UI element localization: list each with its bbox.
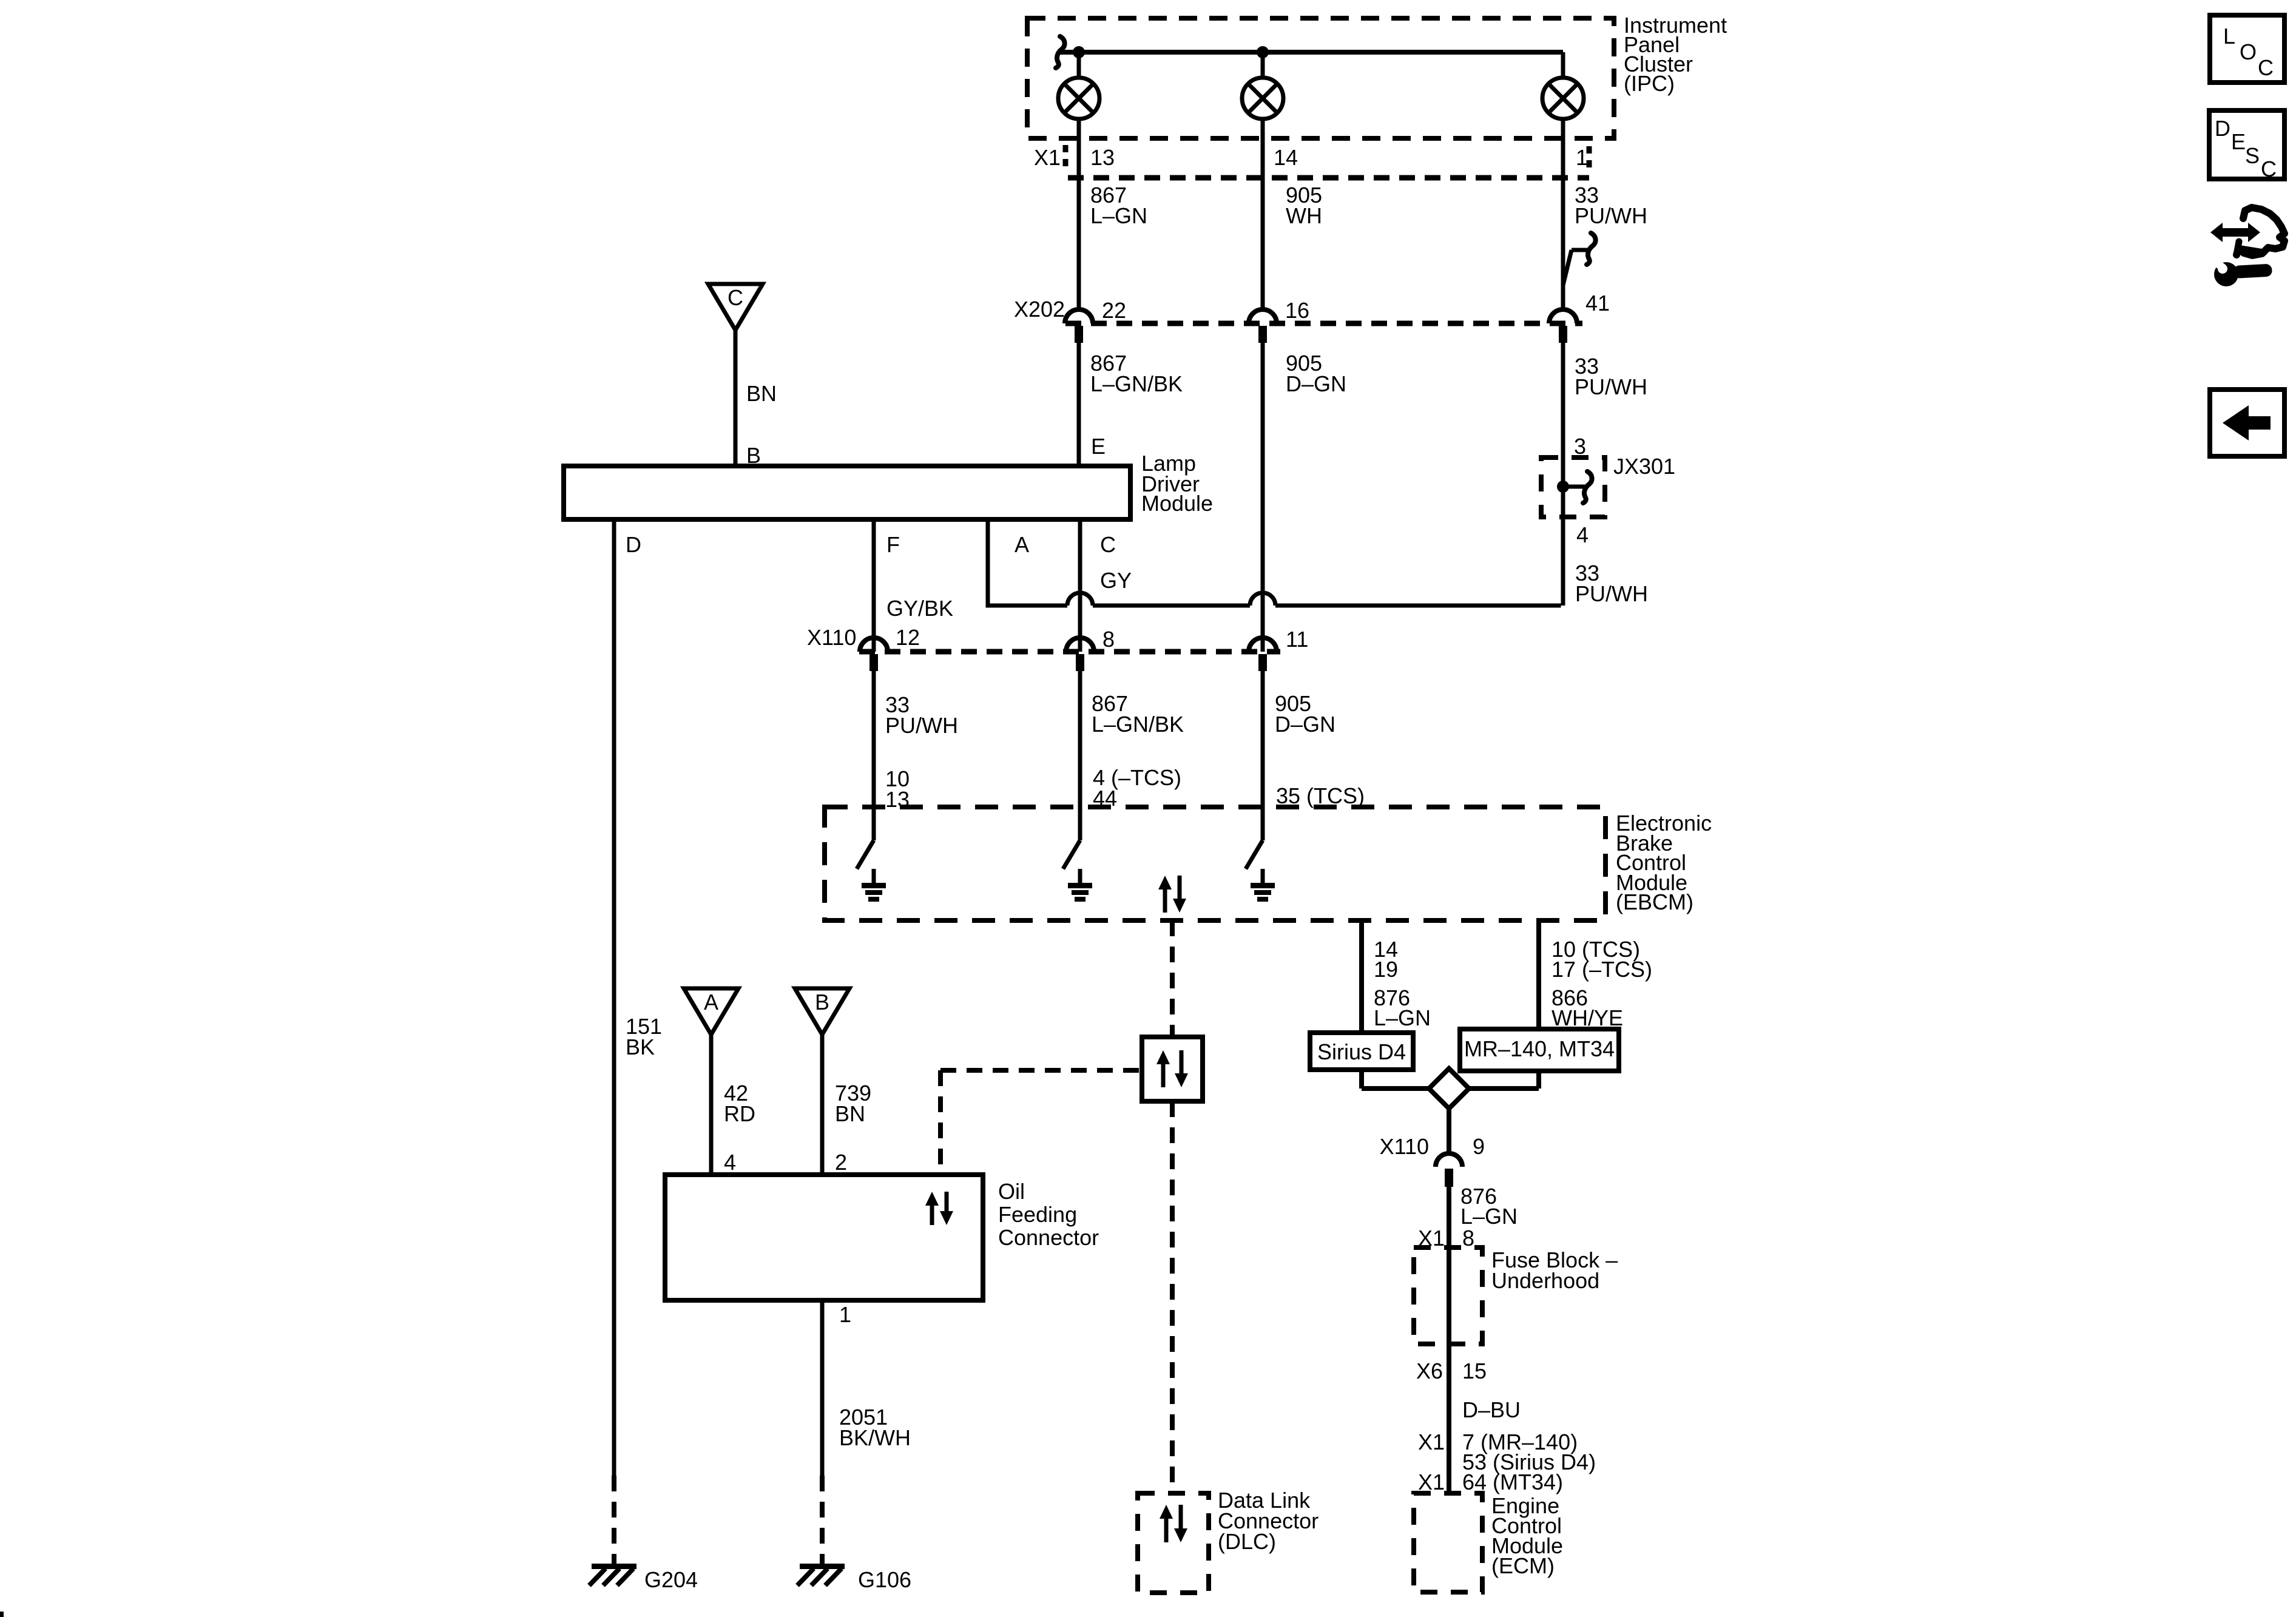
svg-text:X1: X1 (1418, 1430, 1445, 1454)
svg-text:X110: X110 (807, 625, 856, 650)
svg-text:(ECM): (ECM) (1491, 1553, 1555, 1578)
svg-text:1: 1 (839, 1302, 851, 1327)
svg-text:64 (MT34): 64 (MT34) (1462, 1470, 1563, 1494)
svg-text:G204: G204 (644, 1567, 698, 1592)
svg-text:C: C (2261, 157, 2277, 181)
svg-text:MR–140, MT34: MR–140, MT34 (1464, 1036, 1615, 1061)
svg-text:Feeding: Feeding (998, 1202, 1077, 1227)
svg-text:12: 12 (896, 625, 920, 650)
svg-text:(EBCM): (EBCM) (1616, 890, 1693, 914)
svg-text:PU/WH: PU/WH (885, 713, 958, 738)
svg-text:1: 1 (1576, 145, 1588, 170)
svg-text:WH/YE: WH/YE (1551, 1005, 1623, 1030)
svg-text:E: E (2231, 129, 2246, 154)
svg-text:L–GN: L–GN (1090, 203, 1147, 228)
svg-text:35 (TCS): 35 (TCS) (1276, 783, 1365, 808)
svg-text:A: A (1015, 532, 1029, 557)
svg-text:C: C (2258, 55, 2274, 80)
svg-text:4: 4 (724, 1150, 736, 1175)
svg-text:L–GN: L–GN (1460, 1204, 1518, 1229)
svg-text:19: 19 (1374, 957, 1398, 982)
svg-text:D–BU: D–BU (1462, 1397, 1521, 1422)
svg-text:BK: BK (626, 1035, 655, 1059)
svg-text:8: 8 (1102, 627, 1115, 652)
svg-text:D: D (2215, 116, 2230, 141)
svg-text:F: F (886, 532, 900, 557)
svg-text:X202: X202 (1014, 297, 1065, 322)
svg-text:B: B (815, 990, 829, 1014)
svg-text:PU/WH: PU/WH (1575, 203, 1647, 228)
svg-text:X1: X1 (1418, 1470, 1445, 1494)
svg-text:2: 2 (835, 1150, 847, 1175)
svg-text:Sirius D4: Sirius D4 (1317, 1039, 1406, 1064)
svg-text:Underhood: Underhood (1491, 1268, 1599, 1293)
svg-text:C: C (1100, 532, 1116, 557)
svg-text:15: 15 (1462, 1359, 1487, 1383)
svg-text:O: O (2240, 39, 2257, 64)
svg-text:X1: X1 (1034, 145, 1061, 170)
svg-text:D–GN: D–GN (1286, 371, 1346, 396)
svg-text:22: 22 (1102, 298, 1126, 323)
svg-text:GY/BK: GY/BK (886, 596, 953, 621)
svg-text:41: 41 (1585, 291, 1610, 316)
svg-text:11: 11 (1286, 627, 1308, 652)
svg-text:PU/WH: PU/WH (1575, 374, 1647, 399)
svg-text:S: S (2245, 143, 2260, 168)
svg-text:D–GN: D–GN (1275, 712, 1335, 737)
svg-text:X6: X6 (1416, 1359, 1443, 1383)
svg-text:RD: RD (724, 1101, 755, 1126)
svg-text:L–GN: L–GN (1374, 1005, 1431, 1030)
svg-text:E: E (1091, 434, 1106, 459)
svg-text:A: A (704, 990, 718, 1014)
svg-text:3: 3 (1574, 434, 1586, 459)
svg-text:4: 4 (1576, 522, 1589, 547)
svg-text:BK/WH: BK/WH (839, 1425, 911, 1450)
svg-text:9: 9 (1473, 1134, 1485, 1159)
svg-text:GY: GY (1100, 568, 1132, 593)
svg-text:Module: Module (1141, 491, 1213, 516)
svg-text:X110: X110 (1380, 1134, 1429, 1159)
svg-text:WH: WH (1286, 203, 1322, 228)
svg-text:D: D (626, 532, 641, 557)
svg-text:BN: BN (746, 381, 777, 406)
svg-text:(DLC): (DLC) (1218, 1529, 1276, 1554)
svg-text:G106: G106 (858, 1567, 911, 1592)
svg-text:BN: BN (835, 1101, 865, 1126)
svg-text:Connector: Connector (998, 1225, 1099, 1250)
svg-text:C: C (728, 285, 743, 310)
svg-text:L–GN/BK: L–GN/BK (1092, 712, 1184, 737)
svg-text:14: 14 (1274, 145, 1298, 170)
svg-text:8: 8 (1462, 1226, 1474, 1251)
svg-text:16: 16 (1285, 298, 1309, 323)
svg-text:L: L (2223, 24, 2235, 49)
svg-text:(IPC): (IPC) (1624, 71, 1675, 96)
svg-text:17 (–TCS): 17 (–TCS) (1551, 957, 1652, 982)
svg-text:L–GN/BK: L–GN/BK (1090, 371, 1183, 396)
svg-text:JX301: JX301 (1613, 454, 1675, 479)
svg-text:13: 13 (1090, 145, 1115, 170)
svg-text:PU/WH: PU/WH (1575, 581, 1648, 606)
svg-text:Oil: Oil (998, 1179, 1025, 1204)
